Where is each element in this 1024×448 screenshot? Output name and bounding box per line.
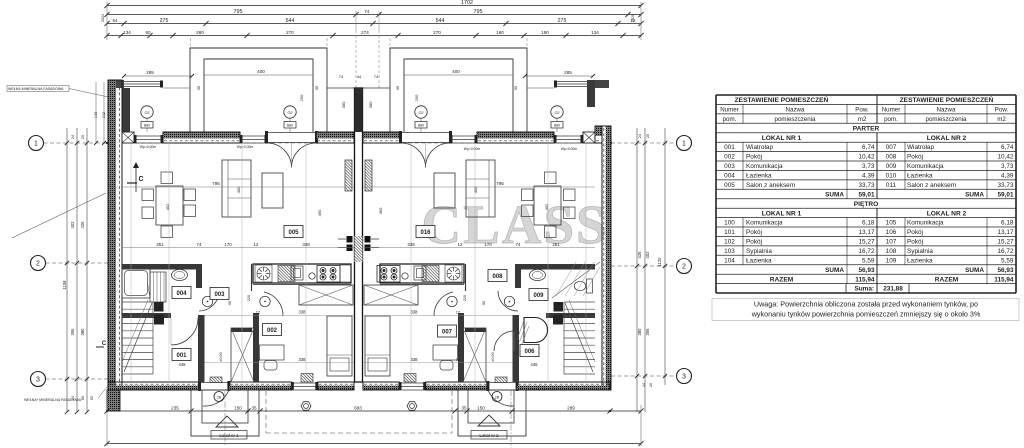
top wall segment left of middle <box>316 132 354 138</box>
room label 009 <box>529 289 548 301</box>
svg-text:Sypialnia: Sypialnia <box>746 248 772 255</box>
projection lines <box>585 143 587 382</box>
svg-text:008: 008 <box>492 274 503 280</box>
facade stub top-right <box>593 80 609 88</box>
svg-text:B80: B80 <box>287 124 293 128</box>
interior dim lines <box>205 315 355 317</box>
svg-text:460: 460 <box>317 209 322 216</box>
svg-text:170: 170 <box>224 242 232 247</box>
interior wall hall <box>546 313 595 318</box>
svg-text:380: 380 <box>341 101 346 108</box>
svg-text:50: 50 <box>145 30 151 35</box>
svg-text:105: 105 <box>886 220 897 227</box>
svg-text:356: 356 <box>645 328 650 336</box>
duct column with vertical lines <box>150 272 166 302</box>
desk and chair room <box>433 345 458 360</box>
terrace projection dashed lines <box>190 38 192 48</box>
svg-text:426: 426 <box>637 251 642 259</box>
interior wall bathroom top <box>515 264 595 270</box>
svg-text:338: 338 <box>411 357 419 362</box>
svg-text:115,94: 115,94 <box>994 276 1014 283</box>
svg-text:SUMA: SUMA <box>965 191 984 198</box>
svg-text:SUMA: SUMA <box>965 267 984 274</box>
svg-text:100: 100 <box>724 220 735 227</box>
bed <box>327 316 352 376</box>
grid bubble 2 left <box>31 256 46 271</box>
svg-text:160: 160 <box>496 30 504 35</box>
svg-text:402: 402 <box>165 203 170 210</box>
bottom wall segment far left <box>108 385 200 390</box>
svg-text:400: 400 <box>236 186 241 193</box>
interior wall bathroom side <box>196 270 202 289</box>
svg-text:356: 356 <box>70 328 75 336</box>
svg-text:003: 003 <box>214 292 225 298</box>
right unit toilet <box>587 279 593 293</box>
svg-text:90: 90 <box>482 301 486 305</box>
interior wall bathroom top <box>122 264 202 270</box>
svg-text:338: 338 <box>302 242 310 247</box>
svg-text:24: 24 <box>638 134 642 138</box>
svg-text:3,73: 3,73 <box>862 163 875 170</box>
window in top-left stub <box>124 81 162 83</box>
kitchen hatched block <box>422 266 439 282</box>
kitchen hatched block <box>278 266 295 282</box>
svg-text:250: 250 <box>414 94 419 101</box>
kitchen small sink circle <box>402 273 408 279</box>
svg-text:380: 380 <box>637 328 642 336</box>
svg-text:212: 212 <box>102 112 106 118</box>
room label 003 <box>210 288 229 300</box>
svg-text:220: 220 <box>463 295 467 301</box>
hall-room door arc <box>434 292 453 316</box>
shaft box with X <box>463 328 486 382</box>
interior wall room side <box>253 313 259 382</box>
svg-text:460: 460 <box>378 207 383 214</box>
terrace door double arc left <box>267 143 292 168</box>
svg-text:140: 140 <box>94 112 98 118</box>
svg-text:150: 150 <box>541 30 549 35</box>
svg-text:004: 004 <box>724 173 735 180</box>
svg-text:20: 20 <box>81 135 85 139</box>
reveal wall right <box>587 80 595 107</box>
kitchen cooktop 4 burners <box>377 266 400 283</box>
svg-text:12: 12 <box>631 18 636 23</box>
svg-text:90: 90 <box>228 301 232 305</box>
dining table <box>156 186 183 225</box>
boiler blocks <box>554 302 564 312</box>
svg-text:338: 338 <box>299 357 307 362</box>
kitchen end cabinet <box>340 265 351 282</box>
interior wall bathroom side <box>515 270 521 289</box>
svg-text:005: 005 <box>724 182 735 189</box>
top wall right corner <box>595 126 602 136</box>
right vertical dimension lines <box>636 128 638 412</box>
svg-text:10,42: 10,42 <box>859 154 875 161</box>
svg-text:10,42: 10,42 <box>998 154 1014 161</box>
svg-text:6,18: 6,18 <box>862 220 875 227</box>
chimney flue squares <box>365 236 371 243</box>
kitchen counter lower edge <box>253 284 351 286</box>
svg-text:24: 24 <box>71 135 75 139</box>
svg-text:74: 74 <box>516 242 521 247</box>
top wall segment <box>163 132 240 138</box>
svg-text:Łazienka: Łazienka <box>746 257 772 264</box>
window in top-right stub <box>555 81 593 83</box>
svg-text:Uwaga: Powierzchnia obliczona: Uwaga: Powierzchnia obliczona została pr… <box>754 300 978 309</box>
svg-text:270: 270 <box>286 30 294 35</box>
svg-text:12: 12 <box>254 242 259 247</box>
kitchen counter <box>380 264 464 283</box>
svg-text:795: 795 <box>496 181 504 186</box>
svg-text:445: 445 <box>179 362 187 367</box>
grid line 1 dashed <box>44 142 109 144</box>
svg-text:Sypialnia: Sypialnia <box>907 248 933 255</box>
svg-text:Pokój: Pokój <box>907 239 923 246</box>
svg-text:289: 289 <box>567 406 575 411</box>
svg-text:108: 108 <box>886 248 897 255</box>
svg-text:1: 1 <box>682 141 686 148</box>
grid bubble 1 right <box>677 136 692 151</box>
table suma total row <box>845 284 847 293</box>
interior wall hall <box>122 313 171 318</box>
svg-text:92: 92 <box>90 396 94 400</box>
svg-text:007: 007 <box>886 144 897 151</box>
svg-text:B80: B80 <box>144 124 150 128</box>
terrace door double arc right <box>401 143 426 168</box>
grid bubble 1 left <box>29 136 44 151</box>
svg-text:795: 795 <box>212 181 220 186</box>
svg-text:35: 35 <box>461 406 467 411</box>
hall-room door arc <box>264 292 283 316</box>
svg-text:Suma:: Suma: <box>854 286 874 293</box>
kitchen sink symbol <box>445 265 462 282</box>
bathtub <box>122 268 150 298</box>
svg-text:B80: B80 <box>554 124 560 128</box>
svg-text:20: 20 <box>646 134 650 138</box>
svg-text:56,93: 56,93 <box>859 267 875 274</box>
svg-text:20: 20 <box>649 383 653 387</box>
staircase <box>122 301 153 303</box>
svg-text:33,73: 33,73 <box>998 182 1014 189</box>
grid line 3 dashed <box>46 378 109 380</box>
dining chairs <box>564 189 576 201</box>
svg-text:13,17: 13,17 <box>859 229 875 236</box>
svg-text:220: 220 <box>247 295 251 301</box>
staircase <box>564 301 595 303</box>
svg-text:Łazienka: Łazienka <box>746 173 772 180</box>
svg-text:Numer: Numer <box>720 107 739 114</box>
desk and chair room <box>260 345 285 360</box>
svg-text:Lokal nr 2: Lokal nr 2 <box>479 433 499 438</box>
svg-text:12: 12 <box>458 242 463 247</box>
svg-text:4,39: 4,39 <box>862 173 875 180</box>
top dimension line 54/275/544/544/275 <box>107 23 641 25</box>
svg-text:338: 338 <box>299 310 307 315</box>
room label 006 <box>520 345 539 357</box>
reveal wall left <box>122 88 130 132</box>
svg-text:Pokój: Pokój <box>907 154 923 161</box>
kitchen cooktop 4 burners <box>317 266 340 283</box>
entrance porch left <box>191 390 259 436</box>
svg-text:285: 285 <box>146 70 154 75</box>
svg-text:2B: 2B <box>495 396 500 400</box>
svg-text:103: 103 <box>724 248 735 255</box>
svg-text:LOKAL NR 2: LOKAL NR 2 <box>927 135 967 142</box>
svg-text:2: 2 <box>682 264 686 271</box>
svg-text:RAZEM: RAZEM <box>770 276 794 283</box>
door marker circles below wall <box>214 392 224 402</box>
hex level markers below wall <box>301 402 311 411</box>
svg-text:ZESTAWIENIE POMIESZCZEŃ: ZESTAWIENIE POMIESZCZEŃ <box>735 95 829 104</box>
svg-text:101: 101 <box>724 229 735 236</box>
svg-text:Numer: Numer <box>882 107 901 114</box>
svg-text:Wiatrołap: Wiatrołap <box>746 144 773 151</box>
svg-text:4,39: 4,39 <box>1001 173 1014 180</box>
svg-text:Komunikacja: Komunikacja <box>746 220 783 227</box>
svg-text:001: 001 <box>176 353 187 359</box>
terrace dimension labels <box>124 75 192 77</box>
bottom extension lines <box>106 405 108 446</box>
svg-text:380: 380 <box>80 328 85 336</box>
interior wall room side <box>458 313 464 382</box>
svg-text:Wiatrołap: Wiatrołap <box>907 144 934 151</box>
svg-text:Pokój: Pokój <box>746 229 762 236</box>
svg-text:008: 008 <box>886 154 897 161</box>
svg-text:260: 260 <box>196 30 204 35</box>
svg-text:12: 12 <box>256 310 261 315</box>
svg-text:104: 104 <box>724 257 735 264</box>
svg-text:001: 001 <box>724 144 735 151</box>
door marker circles <box>504 296 514 306</box>
svg-text:2024: 2024 <box>101 14 105 22</box>
svg-text:74: 74 <box>197 242 202 247</box>
svg-text:O2: O2 <box>144 111 149 115</box>
svg-text:251: 251 <box>156 242 164 247</box>
svg-text:35: 35 <box>395 85 400 90</box>
svg-text:15,27: 15,27 <box>998 239 1014 246</box>
svg-text:pomieszczenia: pomieszczenia <box>775 116 816 123</box>
svg-text:Wp=0,00m: Wp=0,00m <box>237 145 254 149</box>
bottom wall segment <box>229 385 291 390</box>
svg-text:134: 134 <box>123 30 131 35</box>
interior wall wiatrolap side <box>513 315 520 382</box>
svg-text:54: 54 <box>113 18 118 23</box>
room width line 795 <box>122 186 354 188</box>
svg-text:44: 44 <box>357 74 362 79</box>
svg-text:231,88: 231,88 <box>883 286 903 293</box>
right unit wiatrolap door arc <box>494 331 514 351</box>
svg-text:24: 24 <box>642 383 646 387</box>
top wall window W1 left <box>134 136 163 143</box>
svg-text:RAZEM: RAZEM <box>935 276 959 283</box>
svg-text:m2: m2 <box>997 116 1006 123</box>
porch label Lokal nr 2 <box>471 431 507 440</box>
kitchen oven <box>291 266 303 280</box>
svg-text:109: 109 <box>886 257 897 264</box>
svg-text:006: 006 <box>524 349 535 355</box>
bottom wall segment <box>426 385 488 390</box>
svg-text:Pow.: Pow. <box>995 107 1009 114</box>
top wall window W1 right <box>554 136 583 143</box>
svg-text:426: 426 <box>80 221 85 229</box>
top wall corner window box right <box>583 132 595 143</box>
svg-text:1108: 1108 <box>62 280 67 290</box>
bottom wall segment to middle <box>318 385 354 390</box>
wiatrolap door arc <box>171 318 198 345</box>
porch axis dash-dot lines <box>224 390 226 445</box>
porch label Lokal nr 1 <box>211 431 247 440</box>
door marker circles <box>202 296 212 306</box>
left vertical dimension lines <box>66 128 68 412</box>
svg-text:13,17: 13,17 <box>998 229 1014 236</box>
svg-text:011: 011 <box>886 182 897 189</box>
svg-text:445: 445 <box>531 362 539 367</box>
bottom wall entrance door left <box>200 382 229 384</box>
bathroom door arc <box>498 291 518 311</box>
svg-text:1120: 1120 <box>657 257 662 267</box>
svg-text:60: 60 <box>81 396 85 400</box>
svg-text:59,01: 59,01 <box>859 191 875 198</box>
svg-text:795: 795 <box>474 9 483 15</box>
svg-text:402: 402 <box>544 203 549 210</box>
top wall segment right of middle <box>363 132 401 138</box>
svg-text:1702: 1702 <box>461 0 473 6</box>
svg-text:007: 007 <box>442 329 453 335</box>
bottom wall entrance door right <box>488 382 517 384</box>
svg-text:56,93: 56,93 <box>998 267 1014 274</box>
svg-text:wykonaniu tynków powierzchnia: wykonaniu tynków powierzchnia pomieszcze… <box>751 310 981 319</box>
room label 007 <box>438 325 457 337</box>
kitchen wall stub <box>465 264 467 291</box>
kitchen shaft X box <box>364 285 418 305</box>
svg-text:1: 1 <box>34 141 38 148</box>
svg-text:16,72: 16,72 <box>998 248 1014 255</box>
top wall door opening left (lintel) <box>267 132 316 134</box>
svg-text:B80: B80 <box>418 124 424 128</box>
right unit corner shower <box>524 318 548 343</box>
svg-text:Komunikacja: Komunikacja <box>907 163 944 170</box>
svg-text:LOKAL NR 2: LOKAL NR 2 <box>927 210 967 217</box>
svg-text:35: 35 <box>314 85 319 90</box>
kitchen sink symbol <box>255 265 272 282</box>
svg-text:544: 544 <box>436 18 445 24</box>
middle dividing wall <box>355 88 363 382</box>
terrace outline left <box>190 48 327 132</box>
svg-text:170: 170 <box>484 242 492 247</box>
svg-text:402: 402 <box>645 251 650 259</box>
svg-text:3: 3 <box>682 374 686 381</box>
left wall bottom stub <box>107 390 120 411</box>
projection lines <box>130 143 132 382</box>
svg-text:009: 009 <box>533 293 544 299</box>
interior wall wiatrolap side <box>198 315 205 382</box>
entrance door arc right <box>488 390 514 406</box>
bottom wall middle block <box>363 385 399 390</box>
svg-text:PIĘTRO: PIĘTRO <box>854 201 879 208</box>
svg-text:O2: O2 <box>287 111 292 115</box>
kitchen wall stub <box>251 264 253 291</box>
svg-text:Nazwa: Nazwa <box>937 107 956 114</box>
svg-text:59,01: 59,01 <box>998 191 1014 198</box>
svg-text:5,59: 5,59 <box>862 257 875 264</box>
window marker circles above top wall <box>141 106 153 118</box>
svg-text:402: 402 <box>70 221 75 229</box>
kitchen counter <box>253 264 351 283</box>
svg-text:2: 2 <box>36 261 40 268</box>
svg-text:Pokój: Pokój <box>746 239 762 246</box>
svg-text:251: 251 <box>552 242 560 247</box>
svg-text:Salon z aneksem: Salon z aneksem <box>907 182 956 189</box>
svg-text:400: 400 <box>257 69 265 74</box>
svg-text:270: 270 <box>433 30 441 35</box>
svg-text:Wp=0,00m: Wp=0,00m <box>464 147 481 151</box>
svg-text:009: 009 <box>886 163 897 170</box>
dimension extension lines <box>106 2 108 40</box>
kitchen counter lower edge <box>380 284 464 286</box>
svg-text:35: 35 <box>196 85 201 90</box>
svg-text:12: 12 <box>456 310 461 315</box>
window marker blocks on bottom wall <box>301 374 313 383</box>
svg-text:106: 106 <box>886 229 897 236</box>
room label 016 <box>416 226 435 238</box>
svg-text:2B: 2B <box>217 396 222 400</box>
kitchen small sink circle <box>309 273 315 279</box>
svg-text:Łazienka: Łazienka <box>907 257 933 264</box>
svg-text:115,94: 115,94 <box>855 276 875 283</box>
svg-text:±0,00: ±0,00 <box>219 352 223 361</box>
room label 001 <box>172 349 191 361</box>
bottom wall window left <box>291 383 318 390</box>
kitchen oven <box>414 266 426 280</box>
svg-text:Salon z aneksem: Salon z aneksem <box>746 182 795 189</box>
washbasin <box>530 269 546 280</box>
chimney flue squares <box>347 236 353 243</box>
svg-text:15,27: 15,27 <box>859 239 875 246</box>
svg-text:400: 400 <box>452 69 460 74</box>
coffee table <box>434 173 455 208</box>
svg-text:275: 275 <box>160 18 169 24</box>
bottom wall segment far right <box>517 385 610 390</box>
svg-text:Łazienka: Łazienka <box>907 173 933 180</box>
svg-text:400: 400 <box>473 186 478 193</box>
svg-text:275: 275 <box>558 18 567 24</box>
svg-text:12: 12 <box>256 357 261 362</box>
sofa <box>466 160 495 217</box>
grid bubble 3 right <box>677 369 692 384</box>
entrance door arc left <box>203 390 229 406</box>
svg-text:235: 235 <box>171 406 179 411</box>
top wall segment <box>477 132 554 138</box>
right exterior wall <box>606 126 612 390</box>
svg-text:Nazwa: Nazwa <box>786 107 805 114</box>
grid line 2 dashed <box>46 262 109 264</box>
TV panel on middle wall <box>345 160 352 191</box>
svg-text:134: 134 <box>591 30 599 35</box>
svg-text:ZESTAWIENIE POMIESZCZEŃ: ZESTAWIENIE POMIESZCZEŃ <box>900 95 994 104</box>
svg-text:6,18: 6,18 <box>1001 220 1014 227</box>
recessed facade lines mid-top <box>327 87 354 89</box>
svg-text:683: 683 <box>354 406 362 411</box>
svg-text:010: 010 <box>886 173 897 180</box>
svg-text:003: 003 <box>724 163 735 170</box>
shaft box with X <box>231 328 254 382</box>
svg-text:pom.: pom. <box>723 116 737 123</box>
svg-text:795: 795 <box>234 9 243 15</box>
coffee table <box>262 173 283 208</box>
svg-text:WEŁNA* MINERALNA FASADOWA: WEŁNA* MINERALNA FASADOWA <box>24 398 82 402</box>
svg-text:150: 150 <box>234 406 242 411</box>
svg-text:3,73: 3,73 <box>1001 163 1014 170</box>
